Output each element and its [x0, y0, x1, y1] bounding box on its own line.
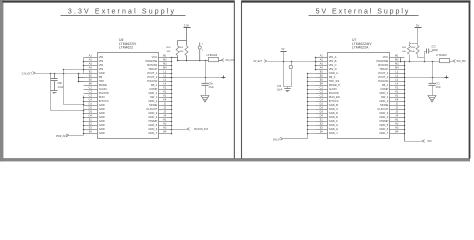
port 3V3 output [221, 59, 224, 62]
svg-text:GND_4: GND_4 [379, 115, 388, 119]
svg-text:MODE: MODE [149, 103, 157, 107]
svg-text:TRK: TRK [99, 79, 105, 83]
svg-text:10uF: 10uF [277, 90, 283, 92]
svg-text:VIN_B: VIN_B [329, 59, 337, 63]
U6 left pin C3 [84, 97, 98, 99]
U6 left pin C4 [84, 101, 98, 103]
svg-text:GND: GND [99, 115, 105, 119]
resistor R33 [416, 46, 419, 55]
svg-text:LTM4622: LTM4622 [119, 45, 133, 49]
svg-text:VIN: VIN [99, 55, 104, 59]
wire vertical x78 rows 77-81 [78, 74, 80, 82]
U6 left pin E2 [84, 125, 98, 127]
ferrite bead L7 [440, 59, 450, 63]
svg-text:5V_EXT: 5V_EXT [254, 61, 263, 63]
ladder wire row [308, 109, 316, 111]
port 5V output [453, 60, 456, 63]
U7 right pin H4 [390, 133, 405, 135]
svg-text:GND_4: GND_4 [148, 115, 157, 119]
vertical ferrite to VOUT [205, 61, 207, 78]
svg-text:3.3V: 3.3V [184, 23, 190, 27]
capacitor C71 [432, 78, 434, 84]
U6 right pin M3 [159, 65, 172, 67]
wire vertical x63 down [63, 70, 65, 105]
U7 left pin B1 [316, 73, 328, 75]
svg-text:SW_1: SW_1 [381, 95, 389, 99]
svg-text:GND_1: GND_1 [379, 91, 388, 95]
svg-text:RUN: RUN [99, 95, 105, 99]
wire row69 to pin [64, 69, 84, 71]
U7 right pin M2 [390, 61, 405, 63]
svg-text:GND: GND [99, 127, 105, 131]
wire row57 to divider [172, 57, 178, 59]
panel border frame [242, 0, 471, 2]
U6 left pin E4 [84, 133, 98, 135]
U6 left pin D1 [84, 105, 98, 107]
svg-text:GND_J: GND_J [329, 131, 338, 135]
svg-text:GND: GND [99, 71, 105, 75]
svg-text:GND: GND [99, 103, 105, 107]
U6 left pin D4 [84, 117, 98, 119]
U6 left pin E3 [84, 129, 98, 131]
wire vertical x283 down [283, 62, 285, 87]
U7 right pin J3 [390, 113, 405, 115]
bus left x315 upper of U7 [315, 58, 317, 70]
panel border frame [3, 0, 235, 2]
svg-text:COMP: COMP [149, 87, 157, 91]
wire row57 to divider 5V [400, 58, 402, 62]
U6 left pin B2 [84, 77, 98, 79]
ground below C68 [51, 90, 58, 92]
svg-text:FB_1: FB_1 [382, 83, 389, 87]
svg-text:CLKIN: CLKIN [329, 87, 337, 91]
U7 right pin H3 [390, 129, 405, 131]
svg-text:47uF: 47uF [436, 87, 442, 89]
svg-text:GND: GND [99, 119, 105, 123]
svg-text:GND_3: GND_3 [148, 111, 157, 115]
port bottom right 5V [405, 141, 422, 143]
U7 left pin D3 [316, 113, 328, 115]
U7 left pin C2 [316, 93, 328, 95]
svg-text:PGOOD: PGOOD [99, 91, 109, 95]
svg-text:RUN/SS: RUN/SS [147, 63, 157, 67]
ladder wire row [308, 101, 316, 103]
svg-text:47uF: 47uF [209, 87, 215, 89]
U7 right pin M3 [390, 65, 405, 67]
svg-text:10K: 10K [402, 51, 406, 53]
capacitor C69 [205, 78, 207, 84]
U7 right pin M1 [390, 57, 405, 59]
power flag 3.3V [186, 28, 188, 46]
wire divider bottom y61 5V [405, 61, 440, 63]
U6 left pin B3 [84, 81, 98, 83]
svg-text:VIN: VIN [99, 67, 104, 71]
U7 left pin B2 [316, 77, 328, 79]
svg-text:M2: M2 [395, 58, 399, 61]
resistor R32 [407, 46, 410, 55]
svg-text:1.0uF: 1.0uF [58, 87, 64, 89]
U7 left pin C1 [316, 89, 328, 91]
window shadow left band [0, 0, 3, 161]
svg-text:RUN/SS: RUN/SS [378, 63, 388, 67]
ladder wire row [308, 113, 316, 115]
IC U6 [98, 53, 159, 139]
U7 right pin J2 [390, 109, 405, 111]
svg-text:CLKIN: CLKIN [99, 87, 107, 91]
bus left lower x85 [83, 96, 85, 136]
U6 left pin B4 [84, 85, 98, 87]
ladder wire row [308, 125, 316, 127]
svg-text:GND: GND [99, 111, 105, 115]
svg-text:FB: FB [99, 75, 103, 79]
ladder wire row [308, 73, 316, 75]
U7 left pin A2 [316, 61, 328, 63]
U7 left pin E1 [316, 121, 328, 123]
IC U7 [328, 53, 390, 139]
test cross 5V [445, 77, 449, 79]
svg-text:5V0_PW: 5V0_PW [457, 61, 467, 63]
U7 left pin C4 [316, 101, 328, 103]
svg-text:INTVCC: INTVCC [99, 99, 109, 103]
U6 left pin B1 [84, 73, 98, 75]
U7 left pin A4 [316, 69, 328, 71]
svg-text:GND_E: GND_E [329, 115, 338, 119]
U6 right pin M1 [159, 57, 172, 59]
svg-text:VIN_A: VIN_A [329, 55, 337, 59]
wire vertical x50 down [50, 74, 52, 111]
svg-text:VTEMP: VTEMP [148, 119, 157, 123]
ground below C70 [287, 87, 289, 89]
U6 left pin A2 [84, 61, 98, 63]
svg-text:M1: M1 [163, 54, 167, 57]
bus left upper x85 [83, 58, 85, 74]
svg-text:M2: M2 [163, 58, 167, 61]
svg-text:3V3_PW: 3V3_PW [225, 60, 235, 62]
svg-text:10K: 10K [167, 51, 171, 53]
U6 right pin J3 [159, 113, 172, 115]
svg-text:TRACK: TRACK [379, 67, 388, 71]
jumper J6 [199, 43, 201, 46]
svg-text:C69: C69 [209, 83, 214, 85]
svg-text:5V0_P: 5V0_P [273, 139, 280, 141]
ferrite bead L6 [209, 58, 219, 62]
U7 right pin L2 [390, 77, 405, 79]
wire VOUT y77 5V [390, 77, 447, 79]
svg-text:GND_5: GND_5 [379, 123, 388, 127]
capacitor C68 [54, 74, 56, 79]
power flag 5V [417, 28, 419, 44]
svg-text:40K: 40K [180, 51, 184, 53]
bus right x171 [171, 58, 173, 134]
svg-text:GND_1: GND_1 [148, 91, 157, 95]
svg-text:C70: C70 [277, 86, 282, 88]
svg-text:LTM4622A: LTM4622A [352, 45, 369, 49]
svg-text:GND_H: GND_H [329, 127, 338, 131]
svg-text:5V: 5V [282, 48, 285, 51]
svg-text:M4: M4 [163, 66, 167, 69]
svg-text:PGOOD_3V3: PGOOD_3V3 [194, 129, 209, 131]
U6 right pin J2 [159, 109, 172, 111]
U6 right pin H1 [159, 121, 172, 123]
ladder wire row [308, 117, 316, 119]
svg-text:VIN_C: VIN_C [329, 63, 337, 67]
ladder wire row [308, 85, 316, 87]
U7 right pin J1 [390, 105, 405, 107]
U6 right pin K2 [159, 93, 172, 95]
svg-text:COMP: COMP [380, 87, 388, 91]
svg-text:5V External Supply: 5V External Supply [316, 9, 411, 16]
ladder wire row [308, 129, 316, 131]
wire resistor tops 5V [410, 43, 418, 45]
svg-text:PGOOD: PGOOD [378, 79, 388, 83]
U7 right pin K4 [390, 101, 405, 103]
ground below C69 [201, 96, 209, 103]
U7 left pin A3 [316, 65, 328, 67]
U6 right pin H3 [159, 129, 172, 131]
U7 right pin M4 [390, 69, 405, 71]
svg-text:GND: GND [99, 107, 105, 111]
U7 right pin H2 [390, 125, 405, 127]
U7 left pin C3 [316, 97, 328, 99]
svg-text:GND_5: GND_5 [148, 123, 157, 127]
svg-text:VIN: VIN [99, 59, 104, 63]
svg-text:FB_X: FB_X [329, 75, 336, 79]
window shadow bottom band [0, 158, 470, 161]
svg-text:M3: M3 [163, 62, 167, 65]
svg-text:L6 BLM18: L6 BLM18 [207, 55, 218, 57]
capacitor C70 polarized [291, 61, 293, 63]
svg-text:GND: GND [99, 123, 105, 127]
svg-text:GND_B: GND_B [329, 103, 338, 107]
U7 left pin E4 [316, 133, 328, 135]
svg-text:GND_6: GND_6 [148, 127, 157, 131]
ladder wire row [308, 93, 316, 95]
resistor R30 [176, 46, 179, 56]
wire port to bus [70, 134, 84, 136]
svg-text:MODE: MODE [380, 103, 388, 107]
U6 right pin L4 [159, 85, 172, 87]
svg-text:C72: C72 [432, 47, 437, 49]
svg-text:VTEMP: VTEMP [379, 119, 388, 123]
U7 left pin B4 [316, 85, 328, 87]
junction at C68 [54, 73, 56, 75]
ladder wire row [308, 133, 316, 135]
svg-text:GND_F: GND_F [329, 119, 338, 123]
svg-text:GND_D: GND_D [329, 111, 338, 115]
svg-text:5V0: 5V0 [428, 141, 433, 143]
resistor R31 [185, 46, 188, 56]
U6 right pin L2 [159, 77, 172, 79]
svg-text:GND_3: GND_3 [379, 111, 388, 115]
svg-text:MODE: MODE [99, 83, 107, 87]
svg-text:GND_6: GND_6 [379, 127, 388, 131]
ladder wire row [308, 97, 316, 99]
svg-text:PHMODE: PHMODE [146, 59, 158, 63]
svg-text:VCC: VCC [383, 55, 389, 59]
svg-text:VOUT_1: VOUT_1 [378, 71, 389, 75]
ladder wire row [308, 105, 316, 107]
svg-text:INTVCC: INTVCC [329, 99, 339, 103]
svg-text:64K: 64K [411, 51, 415, 53]
U7 left pin A1 [316, 57, 328, 59]
U6 left pin C2 [84, 93, 98, 95]
U7 right pin L1 [390, 73, 405, 75]
U7 right pin L3 [390, 81, 405, 83]
U6 right pin M2 [159, 61, 172, 63]
U6 right pin H2 [159, 125, 172, 127]
U6 right pin K3 [159, 97, 172, 99]
U6 left pin A1 [84, 57, 98, 59]
U6 right pin H4 [159, 133, 172, 135]
U6 right pin M4 [159, 69, 172, 71]
svg-text:VCC: VCC [152, 55, 158, 59]
ladder wire row [308, 77, 316, 79]
wire input net [35, 73, 83, 75]
ladder wire row [308, 81, 316, 83]
svg-text:PWR_3V3: PWR_3V3 [56, 136, 67, 138]
ladder wire row [308, 121, 316, 123]
U7 right pin L4 [390, 85, 405, 87]
ground below C71 [428, 96, 436, 103]
svg-text:TRACK: TRACK [148, 67, 157, 71]
svg-text:GND_G: GND_G [329, 123, 339, 127]
wire bottom port to bus [284, 138, 308, 140]
svg-text:100pF: 100pF [432, 50, 439, 52]
svg-text:C68: C68 [58, 83, 63, 85]
svg-text:VOUT_1: VOUT_1 [147, 71, 158, 75]
svg-text:M4: M4 [395, 66, 399, 69]
svg-text:GND_7: GND_7 [148, 131, 157, 135]
U6 left pin E1 [84, 121, 98, 123]
U7 right pin J4 [390, 117, 405, 119]
U6 right pin K4 [159, 101, 172, 103]
svg-text:GND_C: GND_C [329, 107, 338, 111]
wire VOUT y77 [159, 77, 224, 79]
U7 left pin D4 [316, 117, 328, 119]
svg-text:CLKOUT: CLKOUT [377, 107, 388, 111]
svg-text:VOUT_2: VOUT_2 [147, 75, 158, 79]
U7 right pin K2 [390, 93, 405, 95]
wire input net 5V [268, 61, 316, 63]
vertical link to VOUT 5V [432, 62, 434, 78]
U6 right pin L1 [159, 73, 172, 75]
junction input/vertical x63 [63, 73, 65, 75]
svg-text:MODE_P: MODE_P [329, 83, 341, 87]
wire vertical x307 lower net [307, 74, 309, 139]
svg-text:L7 BLM18: L7 BLM18 [436, 55, 447, 57]
svg-text:VIN: VIN [99, 63, 104, 67]
U7 right pin K1 [390, 89, 405, 91]
U6 left pin D3 [84, 113, 98, 115]
U7 left pin D2 [316, 109, 328, 111]
svg-text:GND: GND [99, 131, 105, 135]
junction input/vertical x50 [50, 73, 52, 75]
svg-text:VIN_D: VIN_D [329, 67, 337, 71]
svg-text:GND_2: GND_2 [379, 99, 388, 103]
wire resistor tops [178, 40, 187, 42]
wire bottom of C70 loop [284, 86, 292, 88]
wire divider bottom y60 [178, 60, 209, 62]
svg-text:VOUT_2: VOUT_2 [378, 75, 389, 79]
bus right x404 [404, 62, 406, 142]
svg-text:3.3V_EXT: 3.3V_EXT [22, 73, 33, 75]
svg-text:RUN_EN: RUN_EN [329, 95, 340, 99]
svg-text:5V: 5V [416, 23, 419, 27]
U6 right pin K1 [159, 89, 172, 91]
svg-text:PHMODE: PHMODE [377, 59, 389, 63]
svg-text:GND_2: GND_2 [148, 99, 157, 103]
svg-text:PGOOD: PGOOD [329, 91, 339, 95]
U6 right pin J1 [159, 105, 172, 107]
U6 left pin D2 [84, 109, 98, 111]
U7 right pin H1 [390, 121, 405, 123]
U6 left pin A3 [84, 65, 98, 67]
U6 left pin C1 [84, 89, 98, 91]
port PGOOD right [172, 129, 187, 131]
svg-text:C71: C71 [436, 83, 441, 85]
junction x283 [283, 61, 285, 63]
U7 left pin B3 [316, 81, 328, 83]
svg-text:FB_1: FB_1 [151, 83, 158, 87]
svg-text:TRK_SS: TRK_SS [329, 79, 340, 83]
capacitor C72 series [418, 57, 425, 59]
test cross [221, 77, 225, 79]
U7 left pin E3 [316, 129, 328, 131]
wire y109 to bus [51, 110, 84, 112]
U6 right pin L3 [159, 81, 172, 83]
svg-text:GND_A: GND_A [329, 71, 338, 75]
svg-text:PGOOD: PGOOD [147, 79, 157, 83]
power tick 5V [281, 51, 287, 53]
svg-text:M3: M3 [395, 62, 399, 65]
U7 right pin K3 [390, 97, 405, 99]
svg-text:3.3V External Supply: 3.3V External Supply [68, 9, 176, 16]
svg-text:CLKOUT: CLKOUT [146, 107, 157, 111]
U7 left pin D1 [316, 105, 328, 107]
U7 left pin E2 [316, 125, 328, 127]
svg-text:SW_1: SW_1 [150, 95, 158, 99]
svg-text:GND_7: GND_7 [379, 131, 388, 135]
svg-text:M1: M1 [395, 54, 399, 57]
wire y103 to bus [64, 104, 84, 106]
U6 left pin A4 [84, 69, 98, 71]
U6 right pin J4 [159, 117, 172, 119]
ladder wire row [308, 89, 316, 91]
